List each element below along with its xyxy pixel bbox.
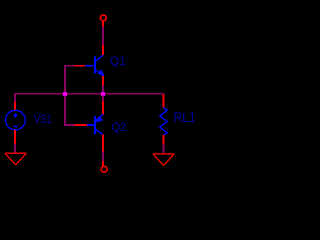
resistor RL1	[160, 107, 167, 135]
wire main horizontal rail y=93.7	[14, 93, 164, 95]
svg-text:Q1: Q1	[110, 56, 126, 68]
wire Q2 collector lead down (red)	[102, 135, 104, 152]
wire VS1 top lead (red)	[14, 102, 16, 111]
wire top terminal to Q1 collector	[102, 27, 104, 45]
terminal VF1 (top output terminal)	[100, 15, 106, 27]
node junction dot left	[63, 92, 67, 96]
wire Q1 emitter to junction (magenta)	[102, 85, 104, 92]
transistor Q1 (NPN)	[85, 55, 105, 76]
wire Q1 base lead (red)	[74, 65, 85, 67]
wire Q2 base lead (red)	[74, 124, 87, 126]
transistor Q2 (PNP)	[87, 114, 103, 134]
source VS1	[6, 110, 26, 130]
ground left	[5, 153, 26, 165]
wire VS1 to ground (magenta)	[14, 144, 16, 153]
wire RL1 to ground (magenta)	[163, 145, 165, 154]
wire Q1 collector lead	[102, 45, 104, 55]
wire Q1 base horizontal (magenta)	[64, 65, 74, 67]
ground right	[153, 154, 174, 166]
wire bottom terminal lead (red)	[102, 161, 104, 166]
svg-text:RL1: RL1	[174, 110, 196, 125]
wire Q2 collector to bottom terminal (magenta)	[102, 151, 104, 161]
wire junction to Q2 emitter (magenta)	[102, 95, 104, 101]
wire Q1 emitter lead down (red)	[102, 76, 104, 85]
terminal VF2 (bottom output terminal)	[101, 166, 107, 172]
svg-text:Q2: Q2	[112, 122, 127, 134]
svg-text:VS1: VS1	[34, 114, 52, 126]
node junction dot right	[101, 92, 105, 96]
wire VS1 bottom lead (red)	[14, 130, 16, 144]
wire rail to RL1 (red lead)	[163, 95, 165, 108]
wire Q2 base horizontal (magenta)	[64, 124, 74, 126]
wire Q2 emitter lead (red)	[102, 101, 104, 115]
wire RL1 bottom lead (red)	[163, 135, 165, 145]
wire vertical bus x=65 from Q1 base to Q2 base	[64, 65, 66, 126]
wire rail to VS1 (magenta)	[14, 95, 16, 102]
